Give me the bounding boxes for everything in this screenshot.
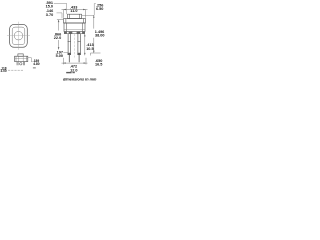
svg-text:16.5: 16.5 [95, 62, 102, 66]
svg-text:4.80: 4.80 [33, 62, 40, 66]
top view button circle [14, 31, 23, 40]
side view right leg [77, 34, 79, 55]
dim .866 bottom arrow [58, 47, 60, 49]
front view cap [18, 54, 23, 56]
dim .433 right arrow [83, 9, 85, 11]
dim .413 bottom arrow [84, 53, 86, 55]
side view body inner right line [82, 23, 84, 32]
front view right dim tick [33, 67, 36, 69]
side view base band right cap [82, 32, 85, 34]
dim 1.496 bottom witness [91, 53, 101, 56]
side view base band right-mid block [77, 32, 81, 34]
front view body seam [15, 58, 28, 60]
top view inner square [12, 27, 25, 44]
front view cap side projection left [17, 56, 19, 61]
front view right dim leader [28, 58, 33, 62]
svg-text:22.0: 22.0 [54, 36, 61, 40]
dim .866/22.0 line lower [58, 40, 60, 50]
dim .433 right witness [85, 10, 87, 18]
dim 1.496/38.00 line lower [93, 38, 95, 53]
side view left leg [67, 34, 69, 55]
side view right leg foot [77, 53, 80, 55]
svg-text:12.0: 12.0 [70, 68, 77, 72]
dim .472 left arrow [63, 62, 65, 64]
dim .472 right witness [85, 58, 87, 65]
side view right leg tip [78, 55, 80, 62]
side view base band left-mid block [69, 32, 73, 34]
dim .866 top witness [57, 19, 63, 21]
dim .197 leader [64, 51, 69, 53]
side view right leg shoulder tick [77, 41, 80, 43]
dim .472 right arrow [84, 62, 86, 64]
svg-text:15.0: 15.0 [46, 5, 53, 9]
side view cover inner right line [83, 19, 85, 24]
dim .413/10.5 line [84, 34, 86, 55]
dim .433 left arrow [64, 9, 66, 11]
svg-text:38.00: 38.00 [95, 34, 105, 38]
side view body inner left line [66, 23, 68, 32]
dim .146 leader [57, 13, 63, 18]
front view right leg [23, 62, 25, 66]
top view outer body [10, 24, 28, 47]
dim .433 left witness [63, 10, 65, 18]
svg-text:dimensions in mm: dimensions in mm [63, 77, 97, 81]
front view body inner left line [15, 56, 17, 61]
front view cap side projection right [22, 56, 24, 61]
side view main body [64, 23, 85, 32]
front view body [15, 56, 28, 61]
side view cap inner right line [79, 14, 81, 18]
side view cover flange [64, 19, 86, 24]
top view vertical centerline [18, 22, 20, 50]
dim 1.496/38.00 line upper [93, 15, 95, 28]
front view left leg [16, 62, 18, 66]
side view base bottom edge [64, 33, 85, 35]
dim .256 leader [82, 4, 96, 16]
dim .866/22.0 line upper [58, 20, 60, 31]
svg-text:3.70: 3.70 [46, 13, 53, 17]
dim .591 leader [54, 3, 67, 14]
side view left leg foot [68, 53, 71, 55]
svg-text:10.5: 10.5 [86, 47, 93, 51]
svg-text:6.50: 6.50 [96, 7, 103, 11]
dim .472 left witness [62, 58, 64, 65]
dim .472 tolerance bar [66, 72, 71, 73]
front view body inner right line [25, 56, 27, 61]
dim 1.496 bottom arrow [93, 51, 95, 53]
dim .413 top arrow [84, 34, 86, 36]
dim 1.496 top arrow [93, 15, 95, 17]
front view left dim leader [8, 69, 23, 71]
side view left leg shoulder tick [68, 41, 71, 43]
svg-text:3.00: 3.00 [1, 69, 7, 73]
side view cover inner left line [65, 19, 67, 24]
side view left leg tip [68, 55, 70, 62]
side view cap [68, 14, 82, 18]
side view cap inner left line [69, 14, 71, 18]
side view body seam [64, 29, 85, 31]
top view horizontal centerline [7, 35, 30, 37]
svg-text:5.00: 5.00 [56, 54, 63, 58]
dim .866 top arrow [58, 20, 60, 22]
front view center peg [20, 63, 22, 65]
side view center axis [73, 34, 75, 58]
dim .472/12.0 line [62, 62, 88, 64]
side view base band left cap [64, 32, 67, 34]
dim .433 line [62, 9, 88, 11]
